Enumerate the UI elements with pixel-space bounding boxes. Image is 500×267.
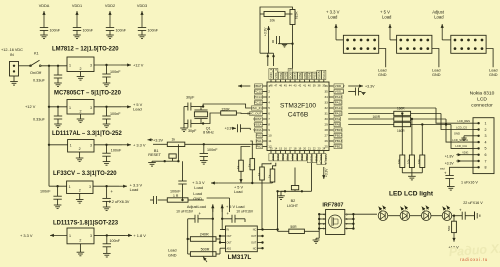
capacitor C 30pF bottom: [180, 107, 204, 133]
wire VDD_2 +3.3V: [348, 84, 375, 88]
regulator U5 LD1117S-1.8: [20, 221, 119, 256]
svg-text:30pF: 30pF: [188, 129, 197, 133]
wire +1.8V pin6: [445, 152, 473, 159]
wire LCD_RES pin1: [436, 108, 473, 123]
svg-text:PB7: PB7: [293, 73, 297, 79]
pin 48 VDD_3: [269, 69, 273, 88]
svg-text:5: 5: [485, 147, 487, 151]
potentiometer 500R: [188, 248, 220, 263]
svg-text:1: 1: [69, 185, 71, 189]
capacitor 0.33uF input MC7805: [33, 106, 62, 128]
svg-text:100nF: 100nF: [116, 29, 127, 33]
svg-text:B2: B2: [291, 199, 296, 203]
pin 22 PB11: [312, 146, 318, 162]
svg-text:PB9: PB9: [279, 73, 283, 79]
svg-text:IN: IN: [227, 229, 230, 232]
svg-text:0.33uF: 0.33uF: [33, 118, 46, 122]
wire +3.3V boot arrow: [260, 14, 270, 53]
pin 26 PB13: [324, 139, 342, 143]
svg-text:LCD: LCD: [477, 97, 487, 103]
pin 35 VSS_2: [324, 89, 344, 93]
capacitor 2.2uF output LF33CV: [102, 186, 130, 210]
svg-text:+12 V: +12 V: [133, 63, 144, 68]
svg-text:Load: Load: [328, 14, 338, 19]
svg-text:LF33CV – 3.3|1|TO-220: LF33CV – 3.3|1|TO-220: [53, 171, 117, 177]
svg-text:10k: 10k: [407, 159, 411, 164]
resistor 615R boot: [290, 10, 299, 69]
svg-text:Load: Load: [130, 187, 139, 192]
svg-text:Load: Load: [378, 69, 386, 73]
svg-text:Load: Load: [194, 185, 203, 190]
svg-text:37: 37: [322, 83, 325, 87]
svg-text:PB11: PB11: [314, 154, 318, 162]
capacitor 100nF on VDDA: [39, 4, 61, 39]
svg-text:PB2: PB2: [305, 154, 309, 160]
pin 2 PC13: [254, 89, 270, 93]
svg-text:2: 2: [79, 238, 81, 242]
pin 17 PA7: [288, 146, 294, 161]
pin 12 PA2: [256, 144, 272, 148]
svg-text:Load: Load: [434, 14, 444, 19]
regulator U4 LF33CV: [49, 171, 117, 203]
svg-text:PB4: PB4: [308, 73, 312, 79]
svg-text:2: 2: [79, 147, 81, 151]
svg-text:VDD_1: VDD_1: [324, 154, 328, 164]
svg-text:160R: 160R: [397, 129, 405, 133]
resistor pull PA2: [234, 147, 250, 195]
svg-text:LCD_C/A: LCD_C/A: [455, 144, 467, 148]
wire LED to cap: [452, 215, 462, 217]
svg-text:PA12: PA12: [335, 101, 343, 105]
svg-text:GND: GND: [432, 73, 441, 77]
LED D3: [421, 206, 442, 221]
resistor pulldown 10k x=402.3: [397, 114, 405, 173]
pin 11 PA1: [256, 139, 272, 143]
resistor 160R PA8: [348, 122, 451, 133]
svg-text:PC15: PC15: [254, 101, 262, 105]
svg-text:11: 11: [268, 139, 271, 143]
svg-text:MC7805CT – 5|1|TO-220: MC7805CT – 5|1|TO-220: [54, 91, 122, 97]
svg-text:4: 4: [485, 140, 487, 144]
pin 42 PB6: [298, 72, 302, 87]
svg-text:PA4: PA4: [276, 154, 280, 160]
pin 9 VDDA: [253, 128, 270, 132]
svg-text:PB0: PB0: [295, 154, 299, 160]
pin 18 PB0: [293, 146, 299, 161]
wire VDD_1 +3.3V: [322, 167, 328, 179]
pin 10 PA0: [256, 133, 272, 137]
pin 34 PA13: [324, 95, 342, 99]
svg-text:LED LCD light: LED LCD light: [389, 191, 434, 198]
svg-text:STM32F100: STM32F100: [280, 103, 316, 110]
svg-text:OUT: OUT: [227, 235, 233, 238]
svg-text:100nF: 100nF: [148, 29, 159, 33]
svg-text:+3.3V: +3.3V: [365, 85, 375, 89]
svg-text:160R: 160R: [397, 106, 405, 110]
node +5V Load arrow: [221, 204, 254, 213]
svg-text:LD1117AL – 3.3|1|TO-252: LD1117AL – 3.3|1|TO-252: [52, 131, 122, 137]
svg-text:+3.3V: +3.3V: [153, 139, 164, 143]
svg-text:+ 5 V: + 5 V: [234, 186, 243, 190]
wire +3.3V Load output: [93, 183, 142, 193]
svg-text:+12..16 VDC: +12..16 VDC: [1, 48, 23, 52]
pin 5 OSC_IN: [250, 106, 270, 110]
svg-text:Load: Load: [168, 249, 176, 253]
pin 3 PC14: [254, 95, 270, 99]
transistor Q2 IRF7807: [313, 203, 355, 244]
ground pulldowns: [402, 173, 422, 180]
svg-text:2: 2: [80, 110, 82, 114]
pin 39 PB3: [312, 72, 316, 87]
svg-text:1k: 1k: [248, 163, 252, 167]
wire LCD_SDATA pin4: [446, 119, 473, 142]
svg-text:PA3: PA3: [271, 154, 275, 160]
capacitor boot with ground: [273, 36, 293, 47]
svg-text:8 MHz: 8 MHz: [203, 131, 214, 135]
resistor 1R filter: [158, 194, 204, 202]
capacitor 100nF on VDD1: [72, 4, 94, 39]
capacitor 100nF output LD1117AL: [102, 145, 122, 165]
pin 27 PB14: [324, 133, 342, 137]
svg-text:VSS_1: VSS_1: [319, 154, 323, 164]
svg-text:500R: 500R: [201, 248, 210, 252]
wire +5V Load output: [94, 102, 143, 112]
pin 6 OSC_OUT: [247, 111, 270, 115]
capacitor filter left: [150, 196, 157, 204]
svg-text:2: 2: [80, 67, 82, 71]
svg-text:26: 26: [324, 139, 328, 143]
svg-text:LD1117S-1.8|1|SOT-223: LD1117S-1.8|1|SOT-223: [53, 221, 119, 227]
capacitor 22uF: [459, 201, 483, 220]
svg-text:PA11: PA11: [335, 106, 342, 110]
svg-text:Load: Load: [133, 107, 142, 112]
svg-text:OUT: OUT: [251, 242, 257, 245]
resistor below PA3: [257, 163, 271, 230]
svg-text:8: 8: [485, 166, 487, 170]
pin 14 PA4: [274, 146, 280, 161]
svg-text:10 uFX16V: 10 uFX16V: [176, 210, 194, 214]
svg-text:PB3: PB3: [312, 73, 316, 79]
svg-text:10k: 10k: [397, 159, 401, 164]
svg-text:+ 3.3 V: + 3.3 V: [133, 142, 146, 147]
svg-text:OUT: OUT: [251, 235, 257, 238]
pin 41 PB5: [303, 72, 307, 87]
LED D1: [378, 206, 400, 221]
svg-text:3: 3: [90, 234, 92, 238]
svg-text:PA13: PA13: [335, 95, 343, 99]
connector load header 1: [326, 10, 387, 78]
svg-text:100nF: 100nF: [207, 148, 218, 152]
svg-text:1k: 1k: [257, 172, 261, 176]
pin 37 PA14: [322, 70, 326, 87]
capacitor 100nF output MC7805: [102, 107, 121, 128]
svg-text:PA0: PA0: [256, 134, 262, 138]
svg-text:PA8: PA8: [335, 123, 341, 127]
svg-text:10: 10: [268, 134, 272, 138]
resistor pulldown 10k x=411.9: [407, 119, 415, 173]
svg-text:10k: 10k: [270, 19, 276, 23]
wire VDDA +3.3V cap: [225, 124, 251, 132]
svg-text:10 uFX16V: 10 uFX16V: [236, 210, 254, 214]
svg-text:PA9: PA9: [335, 117, 341, 121]
svg-text:1: 1: [69, 106, 71, 110]
svg-text:VDD_2: VDD_2: [335, 84, 345, 88]
pin 31 PA10: [324, 111, 342, 115]
capacitor 0.33uF input LM7812: [33, 66, 62, 87]
LED D4: [442, 206, 452, 221]
svg-text:PB1: PB1: [300, 154, 304, 160]
pin 8 VSSA: [254, 122, 271, 126]
pin 1 VBAT: [254, 84, 270, 88]
svg-text:1k: 1k: [236, 165, 240, 169]
watermark: [448, 241, 500, 262]
pin 44 BOOT0: [288, 68, 292, 87]
wire LCD_CS pin2: [441, 114, 473, 130]
wire LED supply: [353, 213, 377, 215]
resistor 50R gate: [276, 190, 319, 233]
svg-text:2.2 uFX6.3V: 2.2 uFX6.3V: [109, 200, 130, 204]
svg-text:2: 2: [79, 188, 81, 192]
wire input rail: [48, 65, 59, 187]
node Adjust Load arrow: [176, 204, 214, 213]
wire +12V output: [94, 63, 144, 68]
svg-text:100nF: 100nF: [50, 29, 61, 33]
pin 45 PB8: [283, 72, 287, 87]
svg-text:240R: 240R: [200, 233, 209, 237]
svg-text:NC: NC: [253, 229, 257, 232]
svg-text:1 uFx16 V: 1 uFx16 V: [461, 181, 478, 185]
op-amp U6 STM32F100C4T6B MCU: [267, 82, 329, 151]
capacitor 100nF input LF33CV: [40, 185, 62, 209]
svg-text:24: 24: [322, 146, 325, 150]
LED D2: [400, 206, 421, 221]
resistor 1k reset: [153, 142, 262, 146]
svg-text:IRF7807: IRF7807: [322, 203, 343, 209]
svg-text:32: 32: [324, 106, 328, 110]
svg-text:PA14: PA14: [322, 71, 326, 79]
pin 16 PA6: [283, 146, 289, 161]
svg-text:+12 V: +12 V: [25, 104, 36, 109]
svg-text:22 uFX16 V: 22 uFX16 V: [463, 201, 483, 205]
svg-text:GND: GND: [378, 73, 387, 77]
button B2 LIGHT: [277, 168, 303, 208]
svg-text:29: 29: [324, 123, 328, 127]
svg-text:42: 42: [298, 83, 301, 87]
capacitor 10uF +5V: [221, 204, 245, 229]
svg-text:GND: GND: [454, 132, 460, 136]
svg-text:30: 30: [324, 117, 328, 121]
svg-text:Nokia 8310: Nokia 8310: [470, 91, 495, 97]
regulator U3 LD1117AL: [48, 131, 123, 162]
svg-text:Load: Load: [432, 69, 440, 73]
svg-text:2: 2: [485, 128, 487, 132]
svg-text:VDDA: VDDA: [253, 128, 262, 132]
svg-text:100nF: 100nF: [110, 112, 121, 116]
capacitor 100nF filter: [170, 161, 187, 200]
capacitor 100nF on VDD2: [105, 4, 127, 39]
svg-text:PB14: PB14: [335, 134, 343, 138]
svg-text:7: 7: [485, 159, 487, 163]
svg-text:Load: Load: [382, 14, 392, 19]
pin 23 VSS_1: [317, 146, 323, 164]
capacitor C 30pF top: [184, 95, 204, 110]
svg-text:0.33uF: 0.33uF: [33, 79, 46, 83]
svg-text:+3.3V: +3.3V: [264, 27, 268, 36]
svg-text:GND: GND: [193, 196, 202, 201]
svg-text:PC14: PC14: [254, 95, 262, 99]
svg-text:14: 14: [274, 146, 277, 150]
svg-text:100nF: 100nF: [111, 149, 122, 153]
svg-text:3: 3: [89, 185, 91, 189]
svg-text:LIGHT: LIGHT: [287, 204, 299, 208]
pin 21 PB10: [307, 146, 313, 162]
wire OSC_IN: [203, 104, 250, 108]
svg-text:1k: 1k: [172, 137, 176, 141]
svg-text:+ 1.8 V: + 1.8 V: [133, 233, 146, 238]
svg-text:615R: 615R: [295, 11, 299, 19]
pin 7 NRST: [253, 117, 270, 121]
wire +3.3V output: [94, 142, 146, 147]
svg-text:PB10: PB10: [310, 154, 314, 162]
svg-text:1: 1: [70, 143, 72, 147]
svg-text:ADJ: ADJ: [227, 247, 232, 250]
svg-text:PA7: PA7: [290, 154, 294, 160]
pin 19 PB1: [298, 146, 304, 161]
svg-text:On/Off: On/Off: [30, 71, 42, 75]
capacitor 1uF VOUT pin8: [440, 167, 478, 190]
svg-text:VDD2: VDD2: [105, 4, 115, 8]
svg-text:PA5: PA5: [281, 154, 285, 160]
capacitor 100nF output LD1117S: [103, 235, 121, 257]
svg-text:3: 3: [485, 134, 487, 138]
svg-text:NRST: NRST: [253, 117, 261, 121]
wire +1.8V output: [94, 233, 146, 238]
svg-text:35: 35: [324, 90, 328, 94]
resistor 220R OSC_OUT: [203, 108, 250, 124]
svg-text:radioxxi.ru: radioxxi.ru: [460, 257, 488, 262]
resistor 10k boot: [260, 7, 293, 23]
pin 40 PB4: [307, 72, 311, 87]
svg-text:3: 3: [90, 143, 92, 147]
svg-text:BOOT0: BOOT0: [288, 68, 292, 79]
svg-text:1: 1: [485, 122, 487, 126]
pin 43 PB7: [293, 72, 297, 87]
wire PA11 LCD_RES row: [348, 107, 436, 109]
regulator U1 LM7812: [52, 47, 119, 81]
capacitor 100nF output LM7812: [102, 65, 121, 87]
svg-text:LCD_SDATA: LCD_SDATA: [452, 138, 468, 142]
svg-text:Load: Load: [234, 190, 242, 194]
wire VBAT to +3.3V: [238, 84, 250, 87]
svg-text:Load: Load: [489, 69, 497, 73]
svg-text:34: 34: [324, 95, 328, 99]
pin 25 PB12: [324, 144, 342, 148]
svg-text:AdjustLoad: AdjustLoad: [187, 205, 206, 209]
svg-text:PA2: PA2: [256, 145, 262, 149]
svg-text:33: 33: [324, 101, 328, 105]
svg-text:50R: 50R: [290, 225, 297, 229]
wire LCD_C/A pin5: [451, 125, 473, 149]
resistor 240R: [187, 219, 226, 254]
svg-text:PB15: PB15: [335, 128, 343, 132]
svg-text:OUT: OUT: [227, 242, 233, 245]
connector Nokia 8310 LCD: [470, 91, 495, 174]
svg-text:GND: GND: [168, 253, 177, 257]
pin 33 PA12: [324, 100, 342, 104]
svg-text:3: 3: [90, 106, 92, 110]
pin 29 PA8: [324, 122, 340, 126]
svg-text:PC13: PC13: [254, 90, 262, 94]
regulator U2 MC7805CT: [25, 91, 122, 123]
svg-text:10k: 10k: [417, 159, 421, 164]
capacitor VSS_2: [348, 88, 365, 96]
capacitor 100nF reset: [200, 144, 219, 164]
svg-text:100nF: 100nF: [110, 70, 121, 74]
button B1 RESET: [148, 144, 179, 166]
svg-text:RESET: RESET: [148, 153, 161, 157]
pin 24 VDD_1: [322, 146, 328, 164]
pin 32 PA11: [324, 106, 342, 110]
svg-text:19: 19: [298, 146, 301, 150]
svg-text:VDD3: VDD3: [137, 4, 147, 8]
svg-text:PB5: PB5: [303, 73, 307, 79]
svg-text:1k: 1k: [268, 174, 272, 178]
svg-text:PA10: PA10: [335, 112, 343, 116]
svg-text:+ 3.3 V: + 3.3 V: [20, 233, 33, 238]
pin 4 PC15: [254, 100, 270, 104]
svg-text:PA15: PA15: [317, 71, 321, 79]
svg-text:+1.8V: +1.8V: [445, 155, 455, 159]
svg-text:LCD_CS: LCD_CS: [456, 125, 467, 129]
svg-text:VDDA: VDDA: [39, 4, 50, 8]
svg-text:IN: IN: [10, 53, 14, 57]
svg-text:27: 27: [324, 134, 328, 138]
svg-text:PA6: PA6: [286, 154, 290, 160]
svg-text:+3.3V: +3.3V: [325, 168, 329, 177]
svg-text:+3.3V: +3.3V: [445, 161, 455, 165]
svg-text:OSC_IN: OSC_IN: [250, 106, 261, 110]
svg-text:100nF: 100nF: [170, 190, 181, 194]
svg-text:PB8: PB8: [284, 73, 288, 79]
pin 36 VDD_2: [324, 84, 344, 88]
svg-text:6: 6: [485, 153, 487, 157]
resistor below PA4: [268, 163, 276, 183]
capacitor 10uF adjust: [188, 204, 214, 256]
pin 30 PA9: [324, 117, 340, 121]
resistor 56R LED: [447, 216, 459, 250]
svg-text:100nF: 100nF: [110, 239, 121, 243]
svg-text:VSS_2: VSS_2: [335, 90, 345, 94]
pin 38 PA15: [317, 70, 321, 87]
svg-text:PB13: PB13: [335, 139, 343, 143]
svg-text:31: 31: [324, 112, 328, 116]
connector load header 2: [380, 10, 441, 78]
resistor 160R PA10: [348, 106, 441, 115]
connector X1 +12..16 VDC IN: [1, 48, 23, 85]
capacitor 100nF on VDD3: [137, 4, 159, 39]
wire boot bottom: [260, 53, 275, 66]
svg-text:30pF: 30pF: [186, 95, 195, 99]
svg-text:PB12: PB12: [335, 145, 343, 149]
op-amp U7 LM317L: [220, 226, 279, 261]
svg-text:VBAT: VBAT: [254, 84, 262, 88]
svg-text:PA1: PA1: [256, 139, 262, 143]
crystal Q1 8MHz: [194, 107, 214, 135]
svg-text:+ 5 V Load: + 5 V Load: [226, 205, 245, 209]
svg-text:LM7812 – 12|1.5|TO-220: LM7812 – 12|1.5|TO-220: [52, 47, 119, 53]
connector load header 3: [432, 10, 498, 78]
svg-text:LCD_RES: LCD_RES: [457, 119, 470, 123]
